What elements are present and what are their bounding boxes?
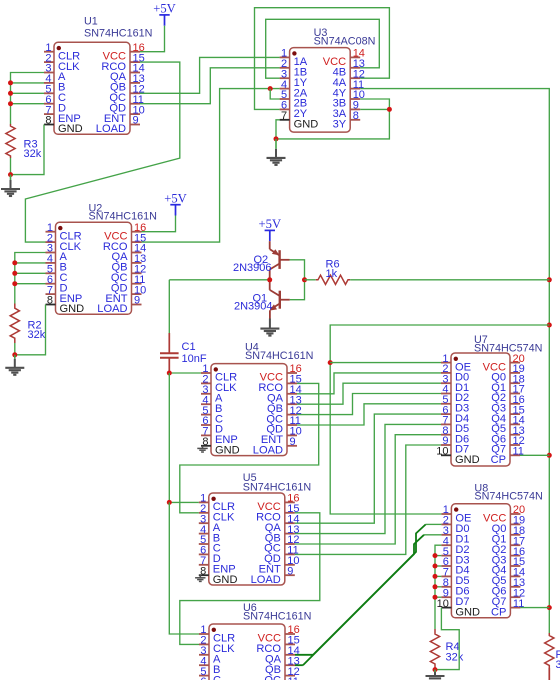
svg-text:GND: GND (215, 445, 240, 457)
ground mini U5 GND pin (199, 575, 201, 577)
IC U8 SN74HC574N (437, 482, 543, 618)
wire U3 3A to ground net (360, 108, 389, 110)
wire R2 bottom to ground node (14, 343, 16, 355)
wire U1 GND pin to ground node (11, 125, 45, 175)
svg-text:1k: 1k (326, 268, 338, 280)
node junction D3 (433, 553, 438, 558)
svg-text:QC: QC (264, 674, 281, 680)
svg-text:SN74AC08N: SN74AC08N (314, 36, 376, 48)
svg-text:7: 7 (281, 110, 287, 122)
svg-text:SN74HC161N: SN74HC161N (243, 482, 311, 494)
node junction clock/OE branch (547, 323, 552, 328)
node junction U2-D (12, 281, 17, 286)
ground under Q1 (269, 319, 271, 329)
svg-text:CP: CP (491, 606, 506, 618)
wire Q collectors join (290, 260, 305, 300)
wire U6 QB to U8 D1 (diagonal) (424, 534, 441, 536)
node ground junction R3 (8, 172, 13, 177)
node junction U2-C (12, 271, 17, 276)
svg-text:LOAD: LOAD (97, 303, 127, 315)
wire U3 3B to ground net (276, 99, 389, 139)
ground under R4 (434, 670, 436, 672)
svg-text:SN74HC161N: SN74HC161N (84, 28, 152, 40)
wire base net down to C1 (168, 280, 170, 333)
node junction CLR net at U5 (167, 500, 172, 505)
wire U1 QC to U3 1A (140, 57, 280, 93)
svg-text:LOAD: LOAD (96, 123, 126, 135)
svg-text:C: C (213, 674, 221, 680)
svg-text:CP: CP (491, 454, 506, 466)
wire U3 GND pin down (276, 120, 280, 139)
svg-text:2N3906: 2N3906 (233, 262, 272, 274)
wire R3 bottom to ground node (10, 158, 12, 175)
svg-text:9: 9 (287, 565, 293, 577)
svg-text:10: 10 (437, 598, 449, 610)
wire U4 QA to U7 D0 (297, 373, 441, 394)
svg-text:+5V: +5V (259, 217, 282, 231)
node junction clock/U7 CP (547, 453, 552, 458)
IC U6 SN74HC161N (199, 602, 311, 680)
svg-text:U1: U1 (84, 16, 98, 28)
svg-text:GND: GND (294, 119, 319, 131)
wire tie D6 (435, 586, 441, 588)
svg-text:8: 8 (47, 295, 53, 307)
svg-text:9: 9 (133, 115, 139, 127)
transistor Q1 2N3904 (234, 280, 290, 319)
svg-text:8: 8 (45, 115, 51, 127)
svg-text:GND: GND (455, 606, 480, 618)
svg-text:32k: 32k (28, 329, 46, 341)
svg-text:11: 11 (288, 676, 299, 680)
node junction U1-C (8, 91, 13, 96)
wire U1 QD to U3 1B (140, 68, 280, 104)
wire U4 QD to U7 D3 (297, 404, 441, 425)
node junction CLR net at U4 (167, 371, 172, 376)
resistor R6 1k (316, 275, 350, 284)
wire U4 QC to U7 D2 (297, 394, 441, 415)
wire CLR chain to U5 CLR (169, 373, 199, 502)
resistor R5 32k (545, 633, 554, 668)
node junction bases (267, 277, 272, 282)
IC U1 SN74HC161N (44, 16, 152, 136)
svg-text:LOAD: LOAD (253, 445, 283, 457)
wire clock branch to U7 OE and U8 OE (330, 325, 549, 514)
ground under U3 (275, 139, 277, 149)
wire tie D3 (435, 555, 441, 557)
svg-text:GND: GND (455, 454, 480, 466)
svg-text:8: 8 (353, 110, 359, 122)
svg-text:C1: C1 (182, 341, 196, 353)
resistor R2 32k (10, 304, 19, 344)
wire U4 RCO to U5 CLK (180, 383, 319, 512)
svg-text:3Y: 3Y (333, 119, 347, 131)
node ground junction U3 (274, 136, 279, 141)
node junction 3A/3B ground net (387, 107, 392, 112)
wire U4 QB to U7 D1 (297, 383, 441, 404)
node junction D6 (433, 584, 438, 589)
svg-text:GND: GND (58, 123, 83, 135)
svg-text:32k: 32k (556, 659, 560, 671)
node junction collectors mid (302, 277, 307, 282)
svg-text:9: 9 (134, 295, 140, 307)
wire U3 1Y to U3 4B (around top) (266, 19, 380, 78)
wire R6 to clock rail (350, 279, 549, 281)
wire U2 GND to ground node (15, 305, 46, 355)
svg-text:32k: 32k (24, 148, 42, 160)
wire U7 CP to clock rail (520, 454, 549, 456)
wire tie D7 (435, 596, 441, 598)
node junction OE branch at U7 (328, 360, 333, 365)
wire U8 D2-D7 tie to R4 (435, 545, 441, 629)
wire U5 QD to U7 D7 (295, 445, 441, 554)
wire +5V to U2 VCC (142, 216, 176, 232)
resistor R4 32k (430, 629, 439, 669)
wire CLR chain to U6 CLR (169, 502, 199, 634)
wire U8 CP to clock rail (520, 607, 549, 609)
wire collectors to R6 (305, 279, 316, 281)
svg-text:LOAD: LOAD (251, 574, 281, 586)
transistor Q2 2N3906 (233, 241, 290, 280)
IC U2 SN74HC161N (46, 202, 157, 315)
wire U2 A,B,C,D bus to R2 (15, 253, 46, 304)
wire +5V to U1 VCC (140, 26, 165, 52)
wire U5 QB to U7 D5 (295, 424, 441, 533)
node junction D5 (433, 574, 438, 579)
svg-text:+5V: +5V (164, 192, 187, 206)
wire U2 RCO to U3 2A (142, 89, 280, 243)
IC U3 SN74AC08N (280, 27, 376, 132)
node junction U1-D (8, 101, 13, 106)
wire branch to U7 OE (330, 362, 441, 364)
node junction clock/U8 CP (547, 605, 552, 610)
svg-text:10nF: 10nF (182, 353, 207, 365)
wire tie D4 (435, 565, 441, 567)
svg-text:GND: GND (213, 574, 238, 586)
wire U6 QA to U8 D0 (diagonal) (426, 523, 442, 525)
node junction clock/R6 (547, 277, 552, 282)
node junction U1-B (8, 80, 13, 85)
svg-text:2N3904: 2N3904 (234, 301, 273, 313)
wire U3 4Y clock net to right rail (360, 89, 549, 633)
IC U5 SN74HC161N (199, 472, 311, 586)
svg-text:SN74HC574N: SN74HC574N (474, 342, 542, 354)
svg-text:SN74HC574N: SN74HC574N (474, 490, 542, 502)
node junction D7 (433, 595, 438, 600)
ground mini U4 GND pin (202, 446, 204, 448)
capacitor C1 10nF (168, 333, 170, 353)
node ground junction R4 (433, 667, 438, 672)
wire U8 GND to ground (435, 608, 459, 670)
wire C1 bottom to U4 CLR (169, 371, 201, 373)
wire U5 QC to U7 D6 (295, 435, 441, 544)
IC U4 SN74HC161N (201, 342, 313, 457)
wire U3 2Y to U3 4A (around top) (255, 8, 390, 110)
svg-text:10: 10 (436, 446, 448, 458)
svg-text:+5V: +5V (153, 2, 176, 16)
resistor R3 32k (6, 124, 15, 158)
svg-text:SN74HC161N: SN74HC161N (89, 211, 157, 223)
svg-text:SN74HC161N: SN74HC161N (245, 350, 313, 362)
wire U1 RCO to U2 CLK (diagonal) (25, 62, 179, 242)
wire 2A to 2B tie (270, 89, 279, 99)
node junction D4 (433, 564, 438, 569)
wire U5 RCO to U6 CLK (180, 513, 320, 645)
svg-text:9: 9 (290, 436, 296, 448)
svg-text:6: 6 (200, 676, 206, 680)
wire U1 A,B,C,D bus to R3 (11, 73, 45, 125)
svg-text:GND: GND (60, 303, 85, 315)
ground under R2 (14, 355, 16, 359)
node junction U2-B (12, 260, 17, 265)
wire U5 QA to U7 D4 (295, 414, 441, 523)
svg-text:SN74HC161N: SN74HC161N (243, 611, 311, 623)
IC U7 SN74HC574N (436, 334, 542, 466)
svg-text:32k: 32k (446, 652, 464, 664)
node ground junction R2 (12, 352, 17, 357)
wire base net to Q1/Q2 bases (169, 279, 269, 281)
node junction 2A/2B tie (268, 86, 273, 91)
ground under R3 (10, 175, 12, 180)
wire tie D5 (435, 575, 441, 577)
